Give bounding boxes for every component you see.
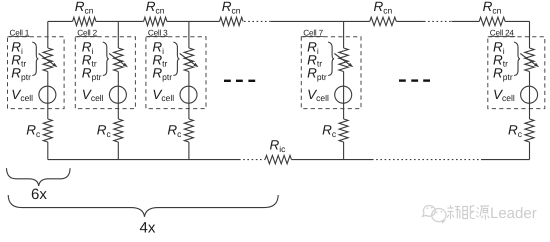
wire Cell 3 to bottom bus xyxy=(188,142,190,160)
resistor internal (variable) Cell 2 xyxy=(114,48,123,72)
cell box Cell 7 (dashed) xyxy=(301,37,361,109)
arrow across resistor Cell 1 xyxy=(39,54,55,66)
wire Cell 7 to bottom bus xyxy=(343,142,345,160)
resistor Rcn 2 xyxy=(144,17,167,25)
ellipsis dashes 2 (omitted cells) xyxy=(399,79,406,81)
arrow across resistor Cell 7 xyxy=(334,54,350,66)
brace 6x (under first group) xyxy=(7,168,71,186)
wire top bus segment 4 xyxy=(271,20,370,22)
resistor internal (variable) Cell 7 xyxy=(339,48,348,72)
brace grouping R labels Cell 24 xyxy=(514,42,520,76)
cell box Cell 24 (dashed) xyxy=(488,37,545,109)
wire Cell 1 mid xyxy=(47,72,49,120)
arrow across resistor Cell 2 xyxy=(109,54,125,66)
wire bottom bus segment 2 xyxy=(292,159,373,161)
brace grouping R labels Cell 2 xyxy=(103,42,109,76)
wire Cell 7 mid xyxy=(343,72,345,120)
wire top bus segment 7 xyxy=(505,20,529,22)
wire Cell 24 to bottom bus xyxy=(529,142,531,160)
wire Cell 1 to bottom bus xyxy=(47,142,49,160)
resistor Rc Cell 7 xyxy=(339,119,348,142)
arrow across resistor Cell 3 xyxy=(180,54,196,66)
cell box Cell 3 (dashed) xyxy=(146,37,206,109)
svg-text:Cell 24: Cell 24 xyxy=(490,28,515,37)
wire top bus segment 1 xyxy=(48,20,73,22)
ellipsis dashes 1 (omitted cells) xyxy=(224,80,231,82)
voltage source circle Cell 24 xyxy=(521,86,538,103)
svg-text:Cell 7: Cell 7 xyxy=(303,28,323,37)
wire top bus dotted continuation 2 xyxy=(424,20,452,22)
resistor Rc Cell 2 xyxy=(114,119,123,142)
wire Cell 24 mid xyxy=(529,72,531,120)
voltage source circle Cell 2 xyxy=(109,86,126,103)
brace grouping R labels Cell 7 xyxy=(328,42,334,76)
watermark text 新能源 (drawn strokes) xyxy=(447,205,489,220)
wire bottom bus segment 1 xyxy=(48,159,239,161)
svg-text:Cell 2: Cell 2 xyxy=(77,28,97,37)
svg-text:4x: 4x xyxy=(140,220,156,237)
resistor internal (variable) Cell 3 xyxy=(184,48,193,72)
resistor Rcn 5 xyxy=(479,17,505,25)
resistor Ric xyxy=(265,155,292,163)
resistor Rcn 4 xyxy=(370,17,397,25)
brace grouping R labels Cell 3 xyxy=(173,42,179,76)
wire top bus segment 6 xyxy=(452,20,480,22)
svg-text:Cell 1: Cell 1 xyxy=(10,28,30,37)
wire top bus segment 5 xyxy=(396,20,424,22)
voltage source circle Cell 1 xyxy=(39,86,56,103)
resistor internal (variable) Cell 24 xyxy=(525,48,534,72)
resistor Rcn 1 xyxy=(73,17,96,25)
resistor Rc Cell 24 xyxy=(525,119,534,142)
resistor Rc Cell 3 xyxy=(184,119,193,142)
arrow across resistor Cell 24 xyxy=(520,54,536,66)
wire Cell 2 mid xyxy=(117,72,119,120)
wire Cell 2 top drop xyxy=(117,21,119,48)
wire Cell 1 top drop xyxy=(47,21,49,48)
wire Cell 2 to bottom bus xyxy=(117,142,119,160)
resistor Rc Cell 1 xyxy=(43,119,52,142)
wire top bus segment 3 xyxy=(167,20,220,22)
wire Cell 3 top drop xyxy=(188,21,190,48)
voltage source circle Cell 3 xyxy=(180,86,197,103)
wire top bus segment 2 xyxy=(96,20,144,22)
voltage source circle Cell 7 xyxy=(335,86,352,103)
svg-text:Cell 3: Cell 3 xyxy=(148,28,168,37)
wire Cell 7 top drop xyxy=(343,21,345,48)
cell box Cell 2 (dashed) xyxy=(75,37,135,109)
svg-text:6x: 6x xyxy=(31,186,47,203)
resistor Rcn 3 xyxy=(220,17,244,25)
wire Cell 3 mid xyxy=(188,72,190,120)
cell box Cell 1 (dashed) xyxy=(8,37,65,109)
wire bottom bus dotted continuation 1 xyxy=(239,159,265,161)
resistor internal (variable) Cell 1 xyxy=(43,48,52,72)
wire Cell 24 top drop xyxy=(529,21,531,48)
wire bottom bus segment 3 xyxy=(481,159,530,161)
brace grouping R labels Cell 1 xyxy=(32,42,38,76)
brace 4x (under whole pack) xyxy=(8,195,278,217)
svg-text:Leader: Leader xyxy=(490,205,537,222)
wire top bus dotted continuation 1 xyxy=(244,20,271,22)
wire bottom bus dotted continuation 2 xyxy=(372,159,481,161)
watermark logo icon (chat bubbles) xyxy=(423,205,446,222)
